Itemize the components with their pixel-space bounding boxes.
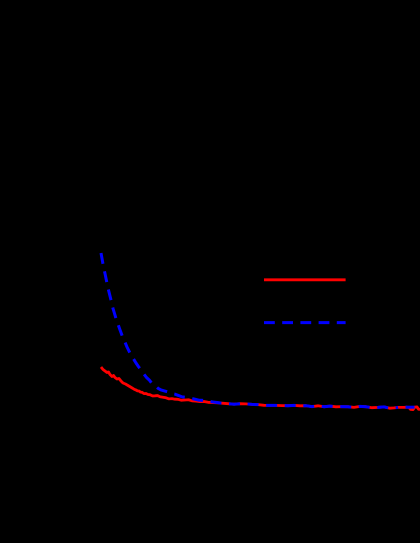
blue dashed curve xyxy=(101,253,398,408)
legend red solid line sample xyxy=(264,278,346,281)
red solid curve xyxy=(101,367,420,410)
legend blue dashed line sample xyxy=(264,321,346,324)
blue dashed curve: final dash segment xyxy=(406,406,415,409)
